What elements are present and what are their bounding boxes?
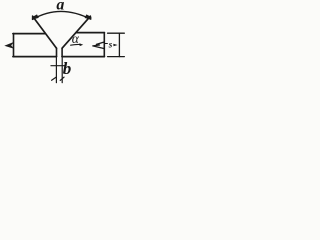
left bevel face	[33, 16, 57, 48]
svg-text:b: b	[63, 59, 72, 78]
svg-text:s: s	[108, 39, 113, 49]
left root face	[56, 48, 58, 56]
gap dimension line	[51, 65, 66, 67]
thickness arrowhead	[113, 44, 117, 46]
right plate top surface	[76, 32, 104, 34]
right plate bottom surface	[62, 56, 104, 58]
right break zigzag	[93, 42, 104, 49]
right root face	[61, 48, 63, 56]
left plate broken edge	[13, 34, 15, 57]
svg-text:α: α	[72, 31, 80, 46]
gap extension line left	[55, 57, 57, 83]
thickness extension line bottom	[108, 56, 125, 58]
left plate top surface	[13, 33, 45, 35]
angle dimension arc	[33, 11, 91, 19]
right bevel face	[62, 16, 90, 48]
bevel angle arrowhead	[79, 43, 83, 46]
arc arrowhead right	[85, 14, 92, 19]
arc arrowhead left	[32, 14, 39, 19]
background	[0, 0, 134, 92]
bevel angle arc under alpha letter	[71, 43, 81, 46]
right plate broken edge	[103, 33, 105, 57]
gap tick left	[52, 77, 56, 80]
gap extension line right	[61, 57, 63, 83]
gap tick right	[60, 77, 64, 80]
svg-text:a: a	[56, 0, 64, 13]
thickness dimension line	[118, 33, 120, 56]
left plate bottom surface	[13, 56, 56, 58]
thickness leader dash	[105, 43, 108, 45]
thickness extension line top	[108, 32, 125, 34]
left break zigzag (solid)	[4, 42, 14, 49]
